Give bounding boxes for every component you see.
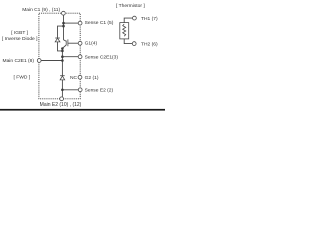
node: main C2E1 junction bbox=[61, 59, 64, 62]
node: diode anode junction bbox=[61, 50, 64, 53]
terminal Main E2 bbox=[60, 97, 64, 101]
wire: TH1 lead bbox=[124, 18, 132, 23]
svg-text:Sense E2 (2): Sense E2 (2) bbox=[85, 88, 114, 94]
terminal G2 (1) NC bbox=[78, 75, 82, 79]
svg-text:[ IGBT ]: [ IGBT ] bbox=[11, 30, 28, 36]
inverse diode D1 bbox=[55, 38, 60, 42]
svg-text:TH1 (7): TH1 (7) bbox=[141, 16, 158, 22]
node: collector / sense C1 junction bbox=[62, 22, 65, 25]
svg-text:Sense C1 (5): Sense C1 (5) bbox=[85, 20, 114, 26]
terminal Main C1 bbox=[62, 11, 66, 15]
terminal TH1 (7) bbox=[133, 16, 137, 20]
node: diode branch junction bbox=[62, 25, 65, 28]
wire: inverse diode cathode lead bbox=[58, 26, 64, 38]
svg-text:Sense C2E1(3): Sense C2E1(3) bbox=[85, 54, 119, 60]
wire: to Sense E2 bbox=[62, 89, 78, 91]
node: sense C2E1 junction bbox=[61, 55, 64, 58]
svg-text:Main E2 (10) , (12): Main E2 (10) , (12) bbox=[40, 102, 82, 108]
wire: to Sense C1 bbox=[64, 22, 79, 24]
svg-text:TH2 (6): TH2 (6) bbox=[141, 42, 158, 48]
svg-text:[ FWD ]: [ FWD ] bbox=[14, 75, 31, 81]
wire: TH2 lead bbox=[124, 39, 132, 44]
wire: emitter vertical bbox=[61, 48, 63, 75]
svg-text:NC: NC bbox=[70, 75, 78, 81]
wire: gate lead to G1 bbox=[68, 42, 78, 44]
wire: main collector vertical from Main C1 bbox=[63, 15, 65, 40]
svg-text:[ Thermistor ]: [ Thermistor ] bbox=[116, 3, 145, 9]
svg-text:G2 (1): G2 (1) bbox=[85, 75, 99, 81]
thermistor R1 bbox=[120, 23, 129, 39]
module case dashed outline bbox=[39, 13, 80, 99]
node: emitter junction bbox=[61, 47, 64, 50]
svg-text:Main C1 (9) , (11): Main C1 (9) , (11) bbox=[22, 7, 60, 13]
terminal G1 (4) bbox=[78, 41, 82, 45]
wire: to Sense C2E1 bbox=[62, 56, 78, 58]
transistor Q1 IGBT bbox=[62, 39, 68, 48]
background bbox=[0, 0, 165, 114]
bottom border bbox=[0, 109, 165, 111]
wire: from Main C2E1 terminal bbox=[41, 60, 62, 62]
svg-text:Main C2E1 (8): Main C2E1 (8) bbox=[3, 58, 35, 64]
node: sense E2 junction bbox=[61, 89, 64, 92]
terminal TH2 (6) bbox=[132, 42, 136, 46]
wire: inverse diode anode lead bbox=[58, 42, 63, 51]
terminal Main C2E1 (8) bbox=[37, 59, 41, 63]
terminal Sense E2 (2) bbox=[78, 88, 82, 92]
terminal Sense C1 (5) bbox=[78, 21, 82, 25]
FWD diode D2 bbox=[60, 76, 65, 80]
terminal Sense C2E1 (3) bbox=[78, 55, 82, 59]
svg-text:[ Inverse Diode ]: [ Inverse Diode ] bbox=[2, 36, 38, 42]
svg-text:G1(4): G1(4) bbox=[85, 40, 98, 46]
wire: FWD anode to Main E2 bbox=[61, 80, 63, 97]
